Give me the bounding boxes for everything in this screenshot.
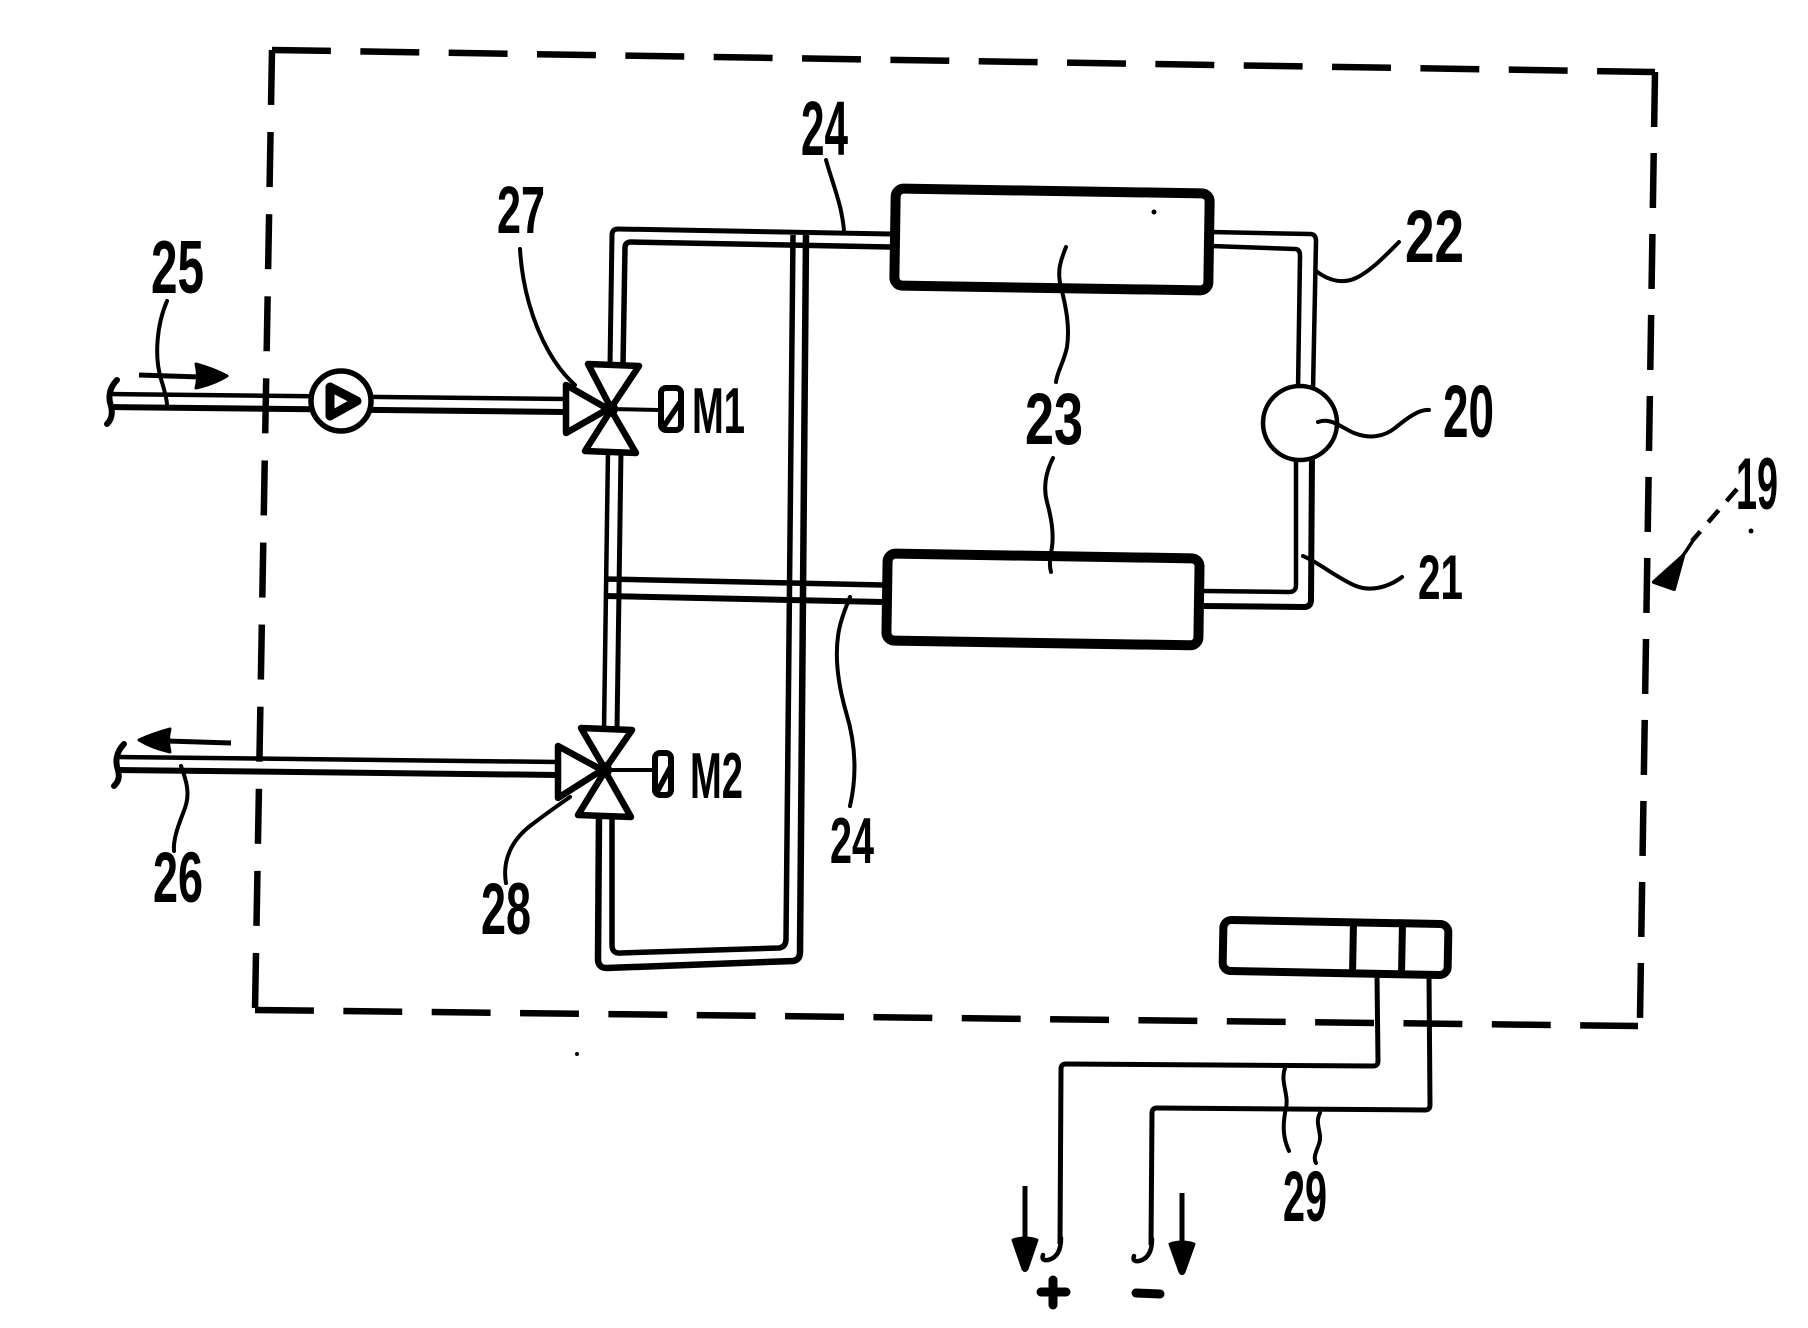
inlet pipe 25 bottom line — [109, 407, 566, 412]
svg-text:M2: M2 — [690, 739, 743, 812]
leader for 23 upper — [1056, 247, 1068, 382]
svg-text:23: 23 — [1025, 379, 1083, 460]
plus sign — [1041, 1280, 1066, 1305]
valve 28 left triangle — [558, 746, 602, 798]
pump circle — [311, 371, 371, 431]
svg-text:22: 22 — [1405, 195, 1464, 278]
leader for 27 — [520, 249, 575, 385]
pump triangle — [330, 387, 357, 416]
leader for 24 bottom — [837, 597, 855, 806]
wire from connector middle cell to plus terminal — [1060, 975, 1378, 1244]
left pipe between valves left line — [604, 450, 608, 730]
component circle 20 — [1263, 386, 1337, 460]
top heat-exchanger block 22 — [894, 189, 1209, 291]
leader for 26 — [174, 766, 188, 851]
inlet pipe 25 top line — [109, 394, 566, 399]
valve 27 left triangle — [566, 385, 608, 433]
outlet pipe 26 end cap — [114, 744, 124, 786]
lower heat-exchanger block 21 — [886, 554, 1199, 646]
bottom U loop inner line — [612, 235, 793, 953]
svg-text:25: 25 — [151, 225, 204, 309]
speck inside top block — [1152, 210, 1157, 215]
bottom U loop outer line — [598, 235, 806, 968]
valve 28 bottom triangle — [578, 771, 631, 817]
riser pipe from valve M1 up, left line with corner to top run top line — [610, 229, 893, 365]
leader 19 curved tail — [1678, 539, 1694, 562]
outlet flow arrow — [139, 729, 231, 752]
left pipe between valves right line — [617, 450, 621, 730]
valve 28 actuator link — [604, 768, 652, 772]
valve 27 bottom triangle — [585, 410, 636, 453]
minus wire end hook — [1134, 1239, 1152, 1261]
wire from connector right cell to minus terminal — [1151, 975, 1430, 1245]
valve M2 actuator symbol — [655, 753, 671, 795]
speck near 19 — [1749, 529, 1754, 534]
right pipe lower outer line — [1204, 456, 1312, 607]
svg-text:29: 29 — [1283, 1158, 1327, 1237]
leader for 22 — [1316, 242, 1399, 281]
right pipe lower inner line — [1204, 456, 1296, 592]
inlet flow arrow — [139, 364, 227, 388]
valve 28 center dot — [596, 762, 612, 778]
leader for 28 — [505, 797, 570, 883]
riser pipe inner line with corner to top run bottom line — [623, 242, 893, 365]
leader for 25 — [157, 301, 167, 404]
svg-text:27: 27 — [497, 173, 545, 248]
outlet pipe 26 bottom line — [118, 770, 558, 775]
leader for 29 right — [1315, 1113, 1320, 1163]
outlet pipe 26 top line — [118, 757, 558, 762]
leader 19 arrow head — [1654, 556, 1683, 589]
valve 28 top triangle — [581, 728, 632, 769]
svg-text:19: 19 — [1736, 444, 1778, 525]
svg-text:21: 21 — [1418, 543, 1463, 613]
down arrow at minus terminal — [1170, 1193, 1194, 1274]
down arrow at plus terminal — [1013, 1186, 1037, 1271]
valve 27 center dot — [602, 401, 618, 417]
svg-text:20: 20 — [1443, 370, 1494, 453]
connector block 29 — [1223, 920, 1449, 975]
leader for 21 — [1303, 556, 1402, 589]
horizontal pipe to lower block top line — [605, 579, 883, 585]
speck below box — [575, 1052, 579, 1056]
valve 27 actuator link — [610, 409, 659, 410]
leader for 20 — [1318, 410, 1429, 436]
dashed leader for 19 — [1692, 489, 1737, 541]
valve 27 top triangle — [588, 364, 639, 408]
leader for 29 left — [1283, 1068, 1289, 1151]
valve M1 actuator symbol — [661, 388, 681, 430]
right pipe from top block outer line — [1211, 232, 1316, 390]
dashed enclosure boundary 19 top edge — [272, 50, 1655, 72]
leader for 24 top — [826, 160, 844, 233]
plus wire end hook — [1043, 1238, 1061, 1260]
leader for 23 lower — [1045, 458, 1053, 572]
svg-text:24: 24 — [830, 804, 874, 877]
inlet pipe 25 end cap — [107, 380, 117, 424]
right pipe from top block inner line — [1211, 246, 1300, 390]
dashed enclosure boundary 19 bottom edge — [255, 1010, 1638, 1026]
horizontal pipe to lower block bottom line — [605, 596, 883, 602]
svg-text:26: 26 — [153, 839, 203, 918]
minus sign — [1136, 1293, 1160, 1294]
dashed enclosure boundary 19 right edge — [1640, 72, 1655, 1018]
dashed enclosure boundary 19 left edge — [255, 50, 272, 1010]
svg-text:M1: M1 — [692, 374, 745, 447]
